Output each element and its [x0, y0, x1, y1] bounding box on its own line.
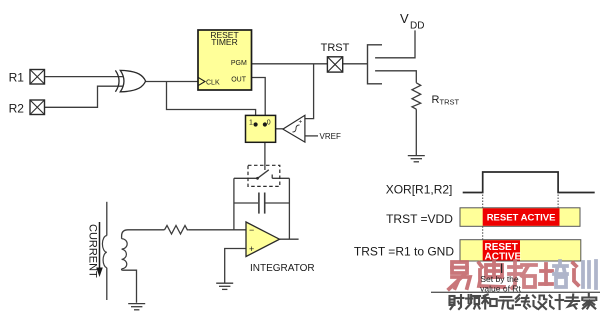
svg-text:VREF: VREF [320, 132, 341, 141]
svg-text:TIMER: TIMER [211, 37, 237, 47]
svg-text:R1: R1 [9, 71, 25, 85]
svg-text:DD: DD [410, 20, 424, 31]
svg-text:INTEGRATOR: INTEGRATOR [250, 263, 315, 274]
svg-text:R: R [432, 94, 440, 106]
svg-text:R2: R2 [9, 101, 25, 115]
svg-text:V: V [400, 11, 409, 26]
svg-text:CURRENT: CURRENT [87, 224, 99, 278]
svg-text:RESET ACTIVE: RESET ACTIVE [487, 213, 556, 224]
svg-text:1: 1 [249, 120, 253, 127]
svg-text:CLK: CLK [206, 80, 220, 87]
svg-text:−: − [249, 225, 254, 235]
svg-text:TRST =R1 to GND: TRST =R1 to GND [354, 244, 454, 258]
svg-text:PGM: PGM [231, 60, 247, 67]
svg-text:XOR[R1,R2]: XOR[R1,R2] [386, 183, 453, 197]
svg-text:TRST: TRST [321, 42, 350, 54]
svg-text:0: 0 [267, 120, 271, 127]
svg-text:TRST =VDD: TRST =VDD [386, 212, 453, 226]
svg-text:+: + [249, 244, 254, 254]
svg-text:OUT: OUT [231, 77, 247, 84]
svg-text:TRST: TRST [440, 98, 460, 107]
